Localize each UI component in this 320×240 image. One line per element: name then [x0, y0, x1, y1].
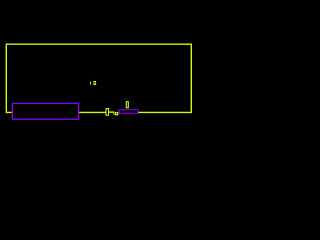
component pin box above R2: [126, 102, 128, 108]
resistor R2 (small purple box): [119, 110, 138, 113]
wire bottom-right segment: [138, 111, 191, 113]
label C8 near R2 left pin: [114, 112, 119, 116]
wire top: [6, 43, 191, 45]
wire left: [5, 44, 7, 114]
fuse F1 (small box on wire): [106, 109, 109, 116]
resistor R1 (large box component): [12, 103, 78, 119]
label 10 (value text): [90, 81, 96, 85]
wire stub between F1 and label: [109, 111, 114, 113]
wire bottom-middle segment: [79, 111, 106, 113]
wire bottom-left segment: [6, 111, 12, 113]
wire right: [190, 44, 192, 114]
